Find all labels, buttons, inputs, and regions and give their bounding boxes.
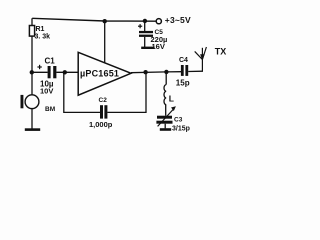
wire feedback path (input - C2 - output) (64, 72, 146, 112)
wire mic stem (31, 72, 33, 95)
wire top supply rail (32, 18, 156, 21)
svg-text:µPC1651: µPC1651 (80, 68, 119, 78)
capacitor C2 (100, 105, 107, 118)
svg-text:3/15p: 3/15p (172, 126, 190, 133)
terminal +3~5V (156, 19, 161, 24)
ground (mic) (25, 128, 40, 131)
svg-text:C2: C2 (99, 97, 108, 104)
inductor L (164, 72, 166, 116)
wire amp power (104, 21, 106, 63)
svg-text:10V: 10V (40, 87, 53, 96)
capacitor C5 (138, 21, 153, 47)
label C3 value (172, 117, 190, 133)
label C4 value (176, 57, 190, 88)
svg-text:TX: TX (215, 46, 227, 56)
node A (R1 / mic / C1 junction) (30, 70, 34, 74)
svg-text:15p: 15p (176, 79, 190, 88)
label C1 value (40, 57, 55, 96)
svg-text:C3: C3 (174, 117, 183, 124)
variable capacitor C3 (156, 106, 176, 128)
svg-text:+3~5V: +3~5V (165, 15, 191, 25)
ground (C5) (141, 47, 154, 49)
label C2 value (89, 97, 113, 129)
svg-text:16V: 16V (152, 42, 165, 51)
node E (C5 supply tap) (143, 19, 147, 23)
svg-text:C4: C4 (179, 57, 188, 64)
antenna TX (195, 47, 207, 71)
svg-text:BM: BM (45, 106, 55, 113)
svg-text:R1: R1 (36, 26, 45, 33)
resistor R1 (29, 18, 34, 72)
node B (amp input junction) (63, 70, 67, 74)
wire amp output (131, 72, 181, 73)
node power tap on rail (103, 19, 107, 23)
op-amp U1 uPC1651 (78, 52, 131, 95)
svg-text:3. 3k: 3. 3k (35, 34, 51, 41)
capacitor C4 (181, 65, 203, 76)
capacitor C1 (32, 65, 79, 79)
ground (C3) (160, 128, 171, 131)
microphone BM (21, 95, 39, 109)
svg-text:1,000p: 1,000p (89, 120, 113, 129)
node C (output / feedback junction) (143, 70, 147, 74)
svg-text:L: L (169, 94, 174, 104)
label R1 value (35, 26, 51, 41)
svg-text:C1: C1 (45, 57, 56, 66)
label C5 value (151, 29, 168, 51)
node D (tank circuit junction) (164, 70, 168, 74)
wire mic to ground (31, 109, 33, 130)
